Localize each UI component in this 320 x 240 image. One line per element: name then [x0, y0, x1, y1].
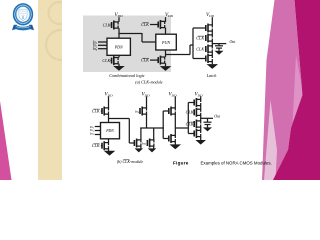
svg-text:PDN: PDN	[114, 44, 123, 49]
latch output node wire (a)	[211, 41, 213, 46]
svg-text:PDN: PDN	[105, 129, 114, 133]
stripe circle ornament lower	[46, 30, 76, 60]
rail to top PMOS gate wire (b)	[188, 102, 194, 104]
NMOS MN3 drain wire (b)	[153, 128, 155, 140]
node wire to PUN input (a)	[118, 33, 142, 35]
wire to ground A3	[211, 62, 213, 65]
latch input PMOS MP4 (b)	[194, 98, 201, 107]
precharge PMOS MP1 (b)	[101, 107, 109, 116]
evaluate NMOS MN1 (a)	[110, 56, 118, 65]
VDD stem wire B4	[200, 96, 202, 99]
ground B1	[104, 151, 116, 156]
inverter NMOS MN4 (b)	[169, 134, 176, 143]
svg-text:Out: Out	[214, 115, 221, 119]
ground A2	[160, 66, 172, 71]
svg-text:PUN: PUN	[161, 40, 170, 45]
svg-text:Latch: Latch	[206, 73, 217, 78]
wire PDN box to foot NMOS (a)	[118, 55, 120, 57]
latch input PMOS MP3 (a)	[206, 24, 213, 33]
svg-text:Out: Out	[230, 40, 237, 44]
wire to ground B4	[200, 137, 202, 141]
svg-text:CLK: CLK	[103, 22, 111, 27]
wire MN3 to ground (b)	[153, 146, 155, 149]
logo emblem	[12, 3, 34, 30]
clocked PMOS MP2 (a)	[150, 20, 165, 29]
latch input rail (b)	[187, 103, 189, 134]
VDD stem wire A3	[211, 17, 213, 25]
svg-text:CLK: CLK	[196, 46, 204, 51]
wire B2 drain to bus	[146, 114, 148, 128]
svg-text:CLK: CLK	[102, 58, 110, 63]
svg-text:(b) CLK-module: (b) CLK-module	[117, 159, 144, 164]
wire A2 drain to PUN box	[165, 28, 167, 35]
NMOS MN3 In5 (b)	[147, 139, 154, 148]
evaluate NMOS MN1 (b)	[101, 141, 109, 150]
latch output node wire (b)	[200, 115, 202, 121]
beige side stripe	[38, 0, 62, 180]
wire to ground A1	[118, 64, 120, 66]
ground A3	[207, 64, 219, 69]
inverter gate rail (b)	[162, 111, 164, 139]
wire MN2 to ground (b)	[140, 146, 142, 149]
latch input NMOS MN4 (a)	[206, 54, 213, 63]
wire A1 drain to node	[118, 28, 120, 38]
evaluate NMOS MN2 (a)	[150, 56, 165, 65]
wire to ground A2	[165, 63, 167, 66]
pink corner triangle bottom-left	[0, 101, 12, 180]
PDN block box (b)	[101, 123, 120, 139]
ground B2-left	[135, 148, 144, 152]
wire PDN box to foot NMOS (b)	[108, 139, 110, 143]
wire between NMOS pair (b)	[200, 127, 202, 130]
stage1 output wire to In-NMOS gate (b)	[108, 118, 129, 120]
latch input NMOS MN6 (b)	[194, 129, 201, 138]
stripe circle ornament upper	[49, 2, 71, 24]
output wire to Out (b)	[201, 117, 213, 119]
inverter PMOS MP3 (b)	[169, 107, 176, 116]
inverter output wire to latch (b)	[175, 127, 188, 129]
wire to ground B3	[174, 142, 176, 145]
rail to top PMOS gate wire (a)	[193, 27, 206, 29]
output wire to Out (a)	[212, 43, 226, 45]
PMOS MP2 In4 (b)	[140, 107, 147, 116]
clocked NMOS MN5 (b)	[194, 120, 201, 129]
VDD stem wire B2	[146, 96, 148, 108]
load capacitor C2 (b)	[203, 118, 212, 131]
load capacitor C1 (a)	[215, 44, 224, 55]
PDN block box (a)	[107, 38, 130, 55]
latch input rail (a)	[192, 28, 194, 59]
svg-text:Figure: Figure	[173, 161, 189, 166]
ground B4	[195, 140, 206, 145]
svg-text:(a) CLK-module: (a) CLK-module	[135, 79, 163, 84]
wire between NMOS pair (a)	[211, 52, 213, 55]
pink faceted right panel	[262, 0, 320, 180]
clocked PMOS MP4 (a)	[205, 34, 212, 43]
wire between PMOS pair (a)	[211, 31, 213, 35]
stage2 output bus wire (b)	[140, 127, 164, 129]
VDD stem wire B3	[174, 96, 176, 108]
VDD stem wire A1	[118, 17, 120, 22]
ground A1	[113, 66, 125, 71]
ground B2-right	[148, 148, 157, 152]
gray combinational-logic background box (a)	[83, 16, 171, 73]
clocked PMOS MP5 (b)	[194, 108, 201, 117]
VDD stem wire B1	[108, 96, 110, 108]
ground B3	[170, 144, 182, 149]
svg-text:Examples of NORA CMOS Modules.: Examples of NORA CMOS Modules.	[201, 161, 272, 166]
wire inverter drain node (b)	[174, 114, 176, 135]
precharge PMOS MP1 (a)	[110, 21, 118, 30]
wire to ground B1	[108, 149, 110, 151]
PUN output wire to latch (a)	[166, 54, 191, 56]
rail to bottom NMOS gate wire (a)	[193, 58, 206, 60]
wire B1 drain to node	[108, 114, 110, 122]
VDD stem wire A2	[165, 17, 167, 22]
svg-text:CLK: CLK	[186, 110, 194, 115]
NMOS MN2 (fed by stage1) (b)	[134, 139, 141, 148]
wire PUN box to foot NMOS (a)	[165, 50, 167, 57]
svg-text:Combinational logic: Combinational logic	[109, 73, 145, 78]
PUN block box (a)	[156, 34, 177, 50]
clocked NMOS MN3 (a)	[205, 45, 212, 54]
rail to bottom NMOS gate wire (b)	[188, 133, 194, 135]
wire between PMOS pair (b)	[200, 106, 202, 109]
NMOS MN2 drain wire (b)	[140, 128, 142, 140]
